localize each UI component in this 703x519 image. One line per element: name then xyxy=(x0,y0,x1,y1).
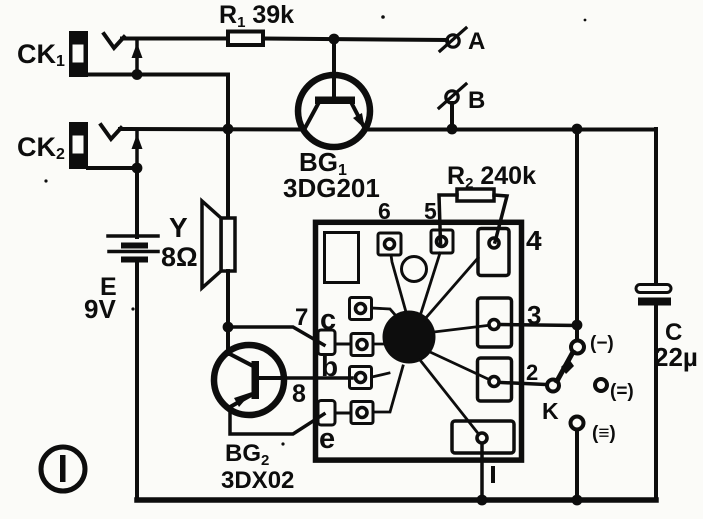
module chip blob xyxy=(383,311,436,364)
svg-text:K: K xyxy=(542,398,559,424)
blob trace to pad 6 xyxy=(391,255,406,312)
scan speck xyxy=(539,237,542,240)
svg-text:8Ω: 8Ω xyxy=(161,242,198,272)
module tab c xyxy=(318,330,335,355)
label 1 xyxy=(491,466,495,483)
wire BG2 emitter to e tab xyxy=(230,407,324,434)
wire node to c tab xyxy=(228,327,324,345)
node switch wire on rail xyxy=(572,495,583,506)
wire pad 1 down to bottom rail xyxy=(480,445,484,501)
module left pad row4 xyxy=(351,402,373,424)
wire top line from CK1 tip to R1 xyxy=(122,37,228,41)
module pad 2 xyxy=(478,358,512,401)
svg-text:b: b xyxy=(321,351,338,382)
switch K arm xyxy=(557,352,573,381)
jack CK1 plug arrow xyxy=(132,41,143,74)
switch K contact throw xyxy=(547,380,559,392)
node on B rail xyxy=(223,124,234,135)
blob trace to left pad row4 xyxy=(373,366,403,412)
wire battery down to bottom rail xyxy=(135,262,139,500)
scan speck xyxy=(131,307,134,310)
wire capacitor down to bottom rail corner xyxy=(654,305,658,500)
svg-text:c: c xyxy=(320,304,336,336)
transistor BG2 xyxy=(214,345,284,415)
svg-text:8: 8 xyxy=(292,380,306,408)
wire CK1 sleeve down to speaker xyxy=(226,75,230,219)
svg-text:(−): (−) xyxy=(590,333,614,354)
svg-text:22µ: 22µ xyxy=(654,342,698,372)
module pad 1 xyxy=(452,421,514,453)
module pad 4 xyxy=(478,229,509,276)
module hole xyxy=(402,257,427,282)
svg-text:6: 6 xyxy=(378,198,391,224)
node pad1 wire on rail xyxy=(477,495,488,506)
node CK2 sleeve junction xyxy=(132,163,143,174)
module pad 5 xyxy=(431,230,453,253)
module left pad row1 xyxy=(350,298,372,320)
switch K contact bottom xyxy=(571,417,584,430)
svg-text:7: 7 xyxy=(295,304,308,331)
blob trace to left pad row1 xyxy=(372,308,397,317)
resistor R1 xyxy=(228,32,263,46)
svg-text:B: B xyxy=(468,87,485,114)
speaker Y xyxy=(202,201,235,288)
figure number circle 1 xyxy=(41,447,85,491)
blob trace to pad 1 xyxy=(420,360,477,432)
blob trace to left pad row2 xyxy=(373,343,388,346)
module pad 3 xyxy=(478,298,512,347)
svg-text:R2 240k: R2 240k xyxy=(447,162,536,192)
terminal B xyxy=(439,84,466,129)
svg-text:4: 4 xyxy=(526,225,542,256)
svg-text:3DG201: 3DG201 xyxy=(283,173,380,203)
switch K contact minus xyxy=(571,341,584,354)
node BG2 collector junction xyxy=(223,322,234,333)
svg-text:9V: 9V xyxy=(84,294,116,324)
svg-text:(=): (=) xyxy=(610,381,634,402)
wire CK2 sleeve line xyxy=(88,166,137,170)
module left pad row3 xyxy=(350,367,372,389)
wire bottom rail xyxy=(137,497,656,503)
wire pad 2 to switch throw xyxy=(501,383,547,385)
node rail to switch wire xyxy=(572,124,583,135)
wire B rail left of BG1 xyxy=(120,127,303,132)
node B stub on rail xyxy=(447,124,458,135)
switch K contact mid xyxy=(595,379,607,391)
module blank rectangle xyxy=(325,233,359,283)
svg-text:A: A xyxy=(468,28,485,55)
svg-text:5: 5 xyxy=(424,198,437,224)
wire BG2 base to pad b xyxy=(284,376,352,380)
scan speck xyxy=(584,19,587,22)
module tab e xyxy=(318,401,335,426)
wire rail down to switch xyxy=(575,129,579,340)
module board outline xyxy=(316,222,522,460)
module left pad row2 xyxy=(351,334,373,356)
jack CK1 xyxy=(69,31,124,77)
battery E xyxy=(108,236,158,263)
wire speaker to BG2 node xyxy=(226,271,230,327)
wire R1 to terminal A xyxy=(264,39,447,41)
svg-text:R1 39k: R1 39k xyxy=(219,1,294,31)
wire CK2 junction down to battery xyxy=(135,168,139,237)
node at R1 / BG1 collector xyxy=(329,34,340,45)
svg-text:(≡): (≡) xyxy=(592,423,616,444)
jack CK2 xyxy=(69,122,121,169)
svg-text:Y: Y xyxy=(169,212,188,243)
wire rail corner down to capacitor xyxy=(654,129,658,284)
scan speck xyxy=(281,442,284,445)
wire B rail right of BG1 xyxy=(366,128,656,132)
wire tab c to pad row2 xyxy=(335,343,351,346)
scan speck xyxy=(381,15,385,19)
capacitor C xyxy=(636,285,671,306)
transistor BG1 xyxy=(298,39,370,147)
blob trace to pad 2 xyxy=(430,352,487,379)
scan speck xyxy=(44,179,47,182)
wire bottom contact to rail xyxy=(575,430,579,500)
svg-text:e: e xyxy=(319,423,335,455)
module pad 6 xyxy=(378,233,401,255)
blob trace to left pad row3 xyxy=(372,373,389,377)
wire node down to BG2 xyxy=(226,327,230,354)
blob trace to pad 4 xyxy=(424,258,478,320)
jack CK2 plug arrow xyxy=(132,131,143,168)
wire tab e to pad row4 xyxy=(335,412,351,415)
node sleeve/arrow junction xyxy=(132,69,143,80)
resistor R2 xyxy=(439,189,507,243)
blob trace to pad 5 xyxy=(421,253,440,313)
terminal A xyxy=(440,28,466,51)
svg-text:2: 2 xyxy=(526,360,538,385)
svg-text:3DX02: 3DX02 xyxy=(221,467,294,494)
wire pad 3 to switch pole xyxy=(501,325,577,326)
wire CK1 sleeve line xyxy=(88,73,228,77)
node switch pole junction xyxy=(572,320,583,331)
blob trace to pad 3 xyxy=(434,326,487,333)
